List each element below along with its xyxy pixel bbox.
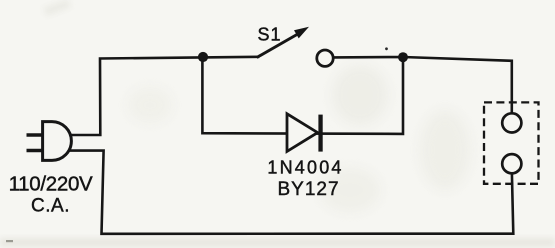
svg-text:C.A.: C.A.: [31, 196, 70, 217]
svg-text:S1: S1: [257, 25, 281, 45]
svg-text:1N4004: 1N4004: [267, 157, 343, 177]
svg-text:BY127: BY127: [277, 179, 339, 200]
svg-text:110/220V: 110/220V: [9, 172, 93, 195]
